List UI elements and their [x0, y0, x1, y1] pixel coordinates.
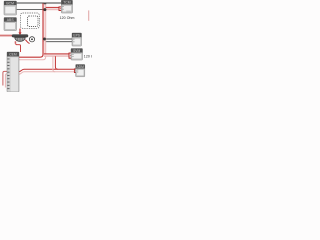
svg-text:120 O: 120 O	[84, 54, 92, 58]
svg-text:TCM: TCM	[63, 1, 71, 5]
svg-text:120 Ohm: 120 Ohm	[60, 16, 75, 20]
svg-text:SVM: SVM	[73, 49, 80, 53]
svg-text:EPS: EPS	[73, 34, 80, 38]
svg-text:ABS: ABS	[7, 18, 15, 22]
svg-text:ADM: ADM	[77, 65, 85, 69]
svg-text:BCM: BCM	[6, 1, 14, 5]
svg-text:CEM: CEM	[9, 53, 17, 57]
